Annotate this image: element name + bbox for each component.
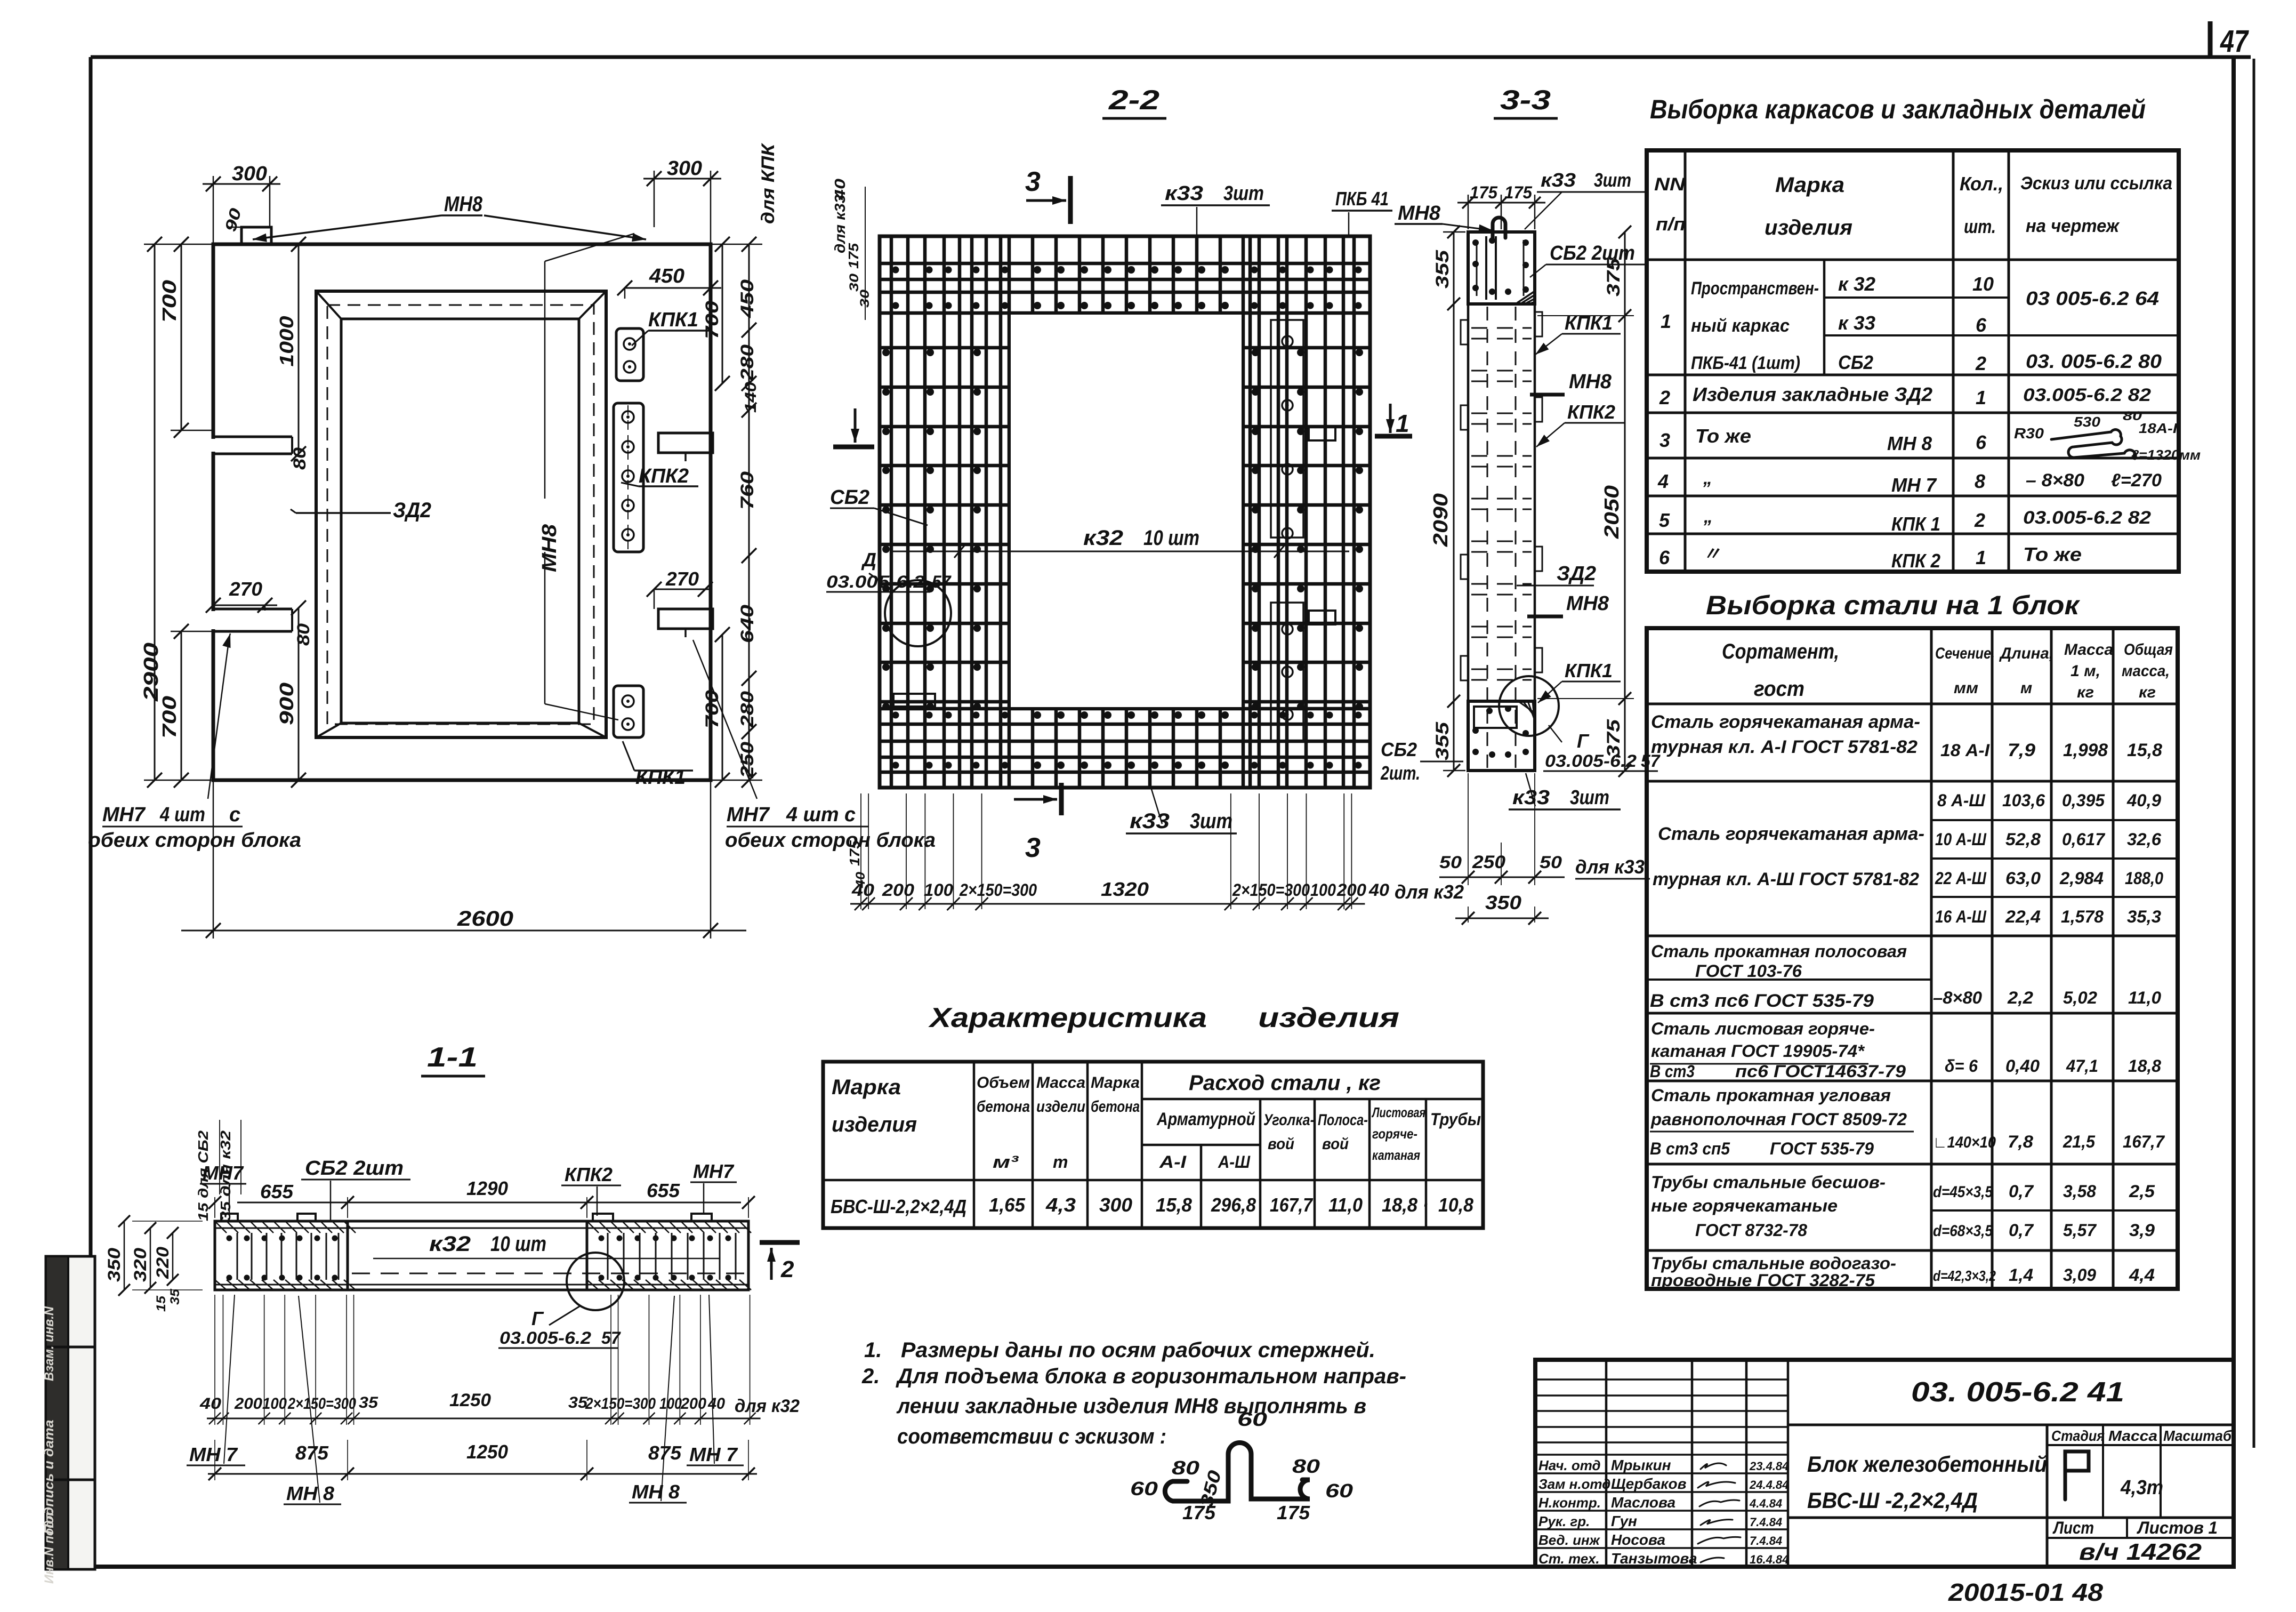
- svg-text:250: 250: [1472, 852, 1505, 872]
- svg-text:5,57: 5,57: [2063, 1221, 2097, 1240]
- svg-text:вой: вой: [1268, 1135, 1294, 1153]
- svg-text:Щербаков: Щербаков: [1611, 1475, 1687, 1492]
- svg-text:обеих сторон блока: обеих сторон блока: [725, 829, 936, 852]
- svg-text:15,8: 15,8: [1156, 1194, 1192, 1216]
- svg-text:280: 280: [737, 344, 758, 381]
- svg-text:300: 300: [232, 163, 267, 185]
- svg-text:лении закладные изделия МН8: лении закладные изделия МН8 выполнять в: [896, 1394, 1366, 1418]
- svg-text:03 005-6.2 64: 03 005-6.2 64: [2026, 287, 2159, 309]
- svg-text:Трубы стальные водогазо-: Трубы стальные водогазо-: [1651, 1254, 1896, 1273]
- svg-text:20015-01 48: 20015-01 48: [1948, 1578, 2104, 1606]
- svg-text:175: 175: [847, 840, 863, 866]
- svg-text:175: 175: [1470, 183, 1498, 202]
- svg-text:МН 8: МН 8: [286, 1482, 334, 1504]
- svg-text:Трубы стальные бесшов-: Трубы стальные бесшов-: [1651, 1173, 1886, 1192]
- svg-text:760: 760: [737, 471, 758, 510]
- svg-text:В ст3 пс6 ГОСТ 535-79: В ст3 пс6 ГОСТ 535-79: [1650, 991, 1874, 1011]
- svg-text:ГОСТ 535-79: ГОСТ 535-79: [1770, 1139, 1874, 1158]
- svg-text:СБ2 2шт: СБ2 2шт: [305, 1157, 404, 1180]
- svg-text:03.005-6.2: 03.005-6.2: [1545, 751, 1637, 771]
- svg-text:1250: 1250: [449, 1390, 491, 1410]
- svg-text:350: 350: [1485, 892, 1521, 913]
- svg-text:КПК2: КПК2: [639, 465, 689, 487]
- svg-text:4 шт: 4 шт: [159, 804, 205, 826]
- svg-text:200: 200: [1336, 880, 1366, 900]
- svg-text:Длина,: Длина,: [1999, 645, 2053, 662]
- svg-text:03. 005-6.2 41: 03. 005-6.2 41: [1911, 1377, 2124, 1408]
- svg-text:ℓ=270: ℓ=270: [2111, 470, 2162, 491]
- svg-text:24.4.84: 24.4.84: [1749, 1478, 1789, 1491]
- svg-text:„: „: [1703, 507, 1713, 527]
- svg-text:– 8×80: – 8×80: [2026, 470, 2084, 491]
- svg-text:655: 655: [260, 1181, 294, 1202]
- svg-text:Марка: Марка: [1091, 1074, 1140, 1092]
- svg-text:Масса: Масса: [1036, 1074, 1085, 1092]
- svg-text:КПК2: КПК2: [565, 1164, 613, 1185]
- svg-text:МН7: МН7: [693, 1160, 735, 1182]
- svg-text:3шт: 3шт: [1190, 809, 1232, 833]
- svg-text:пс6 ГОСТ14637-79: пс6 ГОСТ14637-79: [1735, 1062, 1906, 1081]
- svg-text:35,3: 35,3: [2127, 907, 2161, 926]
- svg-text:3,9: 3,9: [2129, 1221, 2155, 1240]
- svg-text:355: 355: [1432, 250, 1453, 288]
- svg-text:Характеристика: Характеристика: [928, 1003, 1207, 1033]
- svg-text:2×150=300: 2×150=300: [287, 1395, 356, 1413]
- svg-text:3шт: 3шт: [1570, 787, 1609, 809]
- svg-text:1 м,: 1 м,: [2071, 662, 2100, 680]
- svg-text:52,8: 52,8: [2005, 830, 2041, 849]
- svg-text:Изделия закладные ЗД2: Изделия закладные ЗД2: [1693, 383, 1932, 405]
- svg-text:10: 10: [1972, 273, 1994, 295]
- svg-text:Нач. отд: Нач. отд: [1538, 1457, 1601, 1473]
- svg-text:7,9: 7,9: [2008, 740, 2035, 760]
- svg-text:Танзытова: Танзытова: [1611, 1550, 1697, 1567]
- svg-text:875: 875: [295, 1442, 329, 1464]
- svg-text:Г: Г: [531, 1308, 544, 1329]
- svg-text:МН 7: МН 7: [1891, 474, 1937, 496]
- svg-text:1,578: 1,578: [2061, 907, 2104, 926]
- svg-text:d=45×3,5: d=45×3,5: [1933, 1183, 1993, 1201]
- svg-text:Сталь прокатная полосовая: Сталь прокатная полосовая: [1651, 942, 1907, 961]
- svg-text:КПК 1: КПК 1: [1891, 513, 1940, 535]
- svg-text:875: 875: [648, 1442, 682, 1464]
- svg-text:530: 530: [2074, 414, 2101, 430]
- svg-text:15,8: 15,8: [2127, 740, 2162, 760]
- svg-text:280: 280: [737, 691, 758, 728]
- svg-text:изделия: изделия: [832, 1113, 917, 1136]
- svg-text:d=68×3,5: d=68×3,5: [1933, 1222, 1993, 1240]
- svg-text:КПК2: КПК2: [1567, 401, 1615, 423]
- svg-text:КПК1: КПК1: [1565, 312, 1613, 334]
- svg-text:Носова: Носова: [1611, 1531, 1665, 1548]
- svg-text:700: 700: [702, 301, 722, 339]
- svg-text:16 А-Ш: 16 А-Ш: [1935, 907, 1987, 926]
- svg-text:Для подъема блока в горизон: Для подъема блока в горизонтальном напра…: [896, 1365, 1406, 1388]
- svg-text:0,395: 0,395: [2062, 791, 2105, 810]
- svg-text:2: 2: [1975, 352, 1986, 374]
- svg-text:0,40: 0,40: [2005, 1056, 2040, 1076]
- svg-text:8: 8: [1975, 470, 1985, 492]
- svg-text:Кол.,: Кол.,: [1960, 173, 2003, 195]
- svg-text:МН8: МН8: [538, 524, 561, 572]
- svg-text:СБ2: СБ2: [830, 486, 869, 509]
- svg-text:22,4: 22,4: [2005, 907, 2041, 926]
- svg-text:2,984: 2,984: [2059, 869, 2104, 888]
- svg-text:175: 175: [845, 243, 861, 269]
- svg-text:640: 640: [737, 605, 758, 643]
- svg-text:2: 2: [1974, 509, 1985, 531]
- svg-text:63,0: 63,0: [2005, 869, 2041, 888]
- svg-text:Сечение,: Сечение,: [1935, 645, 1995, 662]
- svg-text:2шт.: 2шт.: [1380, 762, 1420, 784]
- svg-text:м³: м³: [993, 1152, 1019, 1172]
- svg-text:200: 200: [882, 880, 914, 900]
- svg-text:ЗД2: ЗД2: [393, 499, 431, 522]
- svg-text:бетона: бетона: [1091, 1098, 1140, 1116]
- svg-text:ПКБ-41 (1шт): ПКБ-41 (1шт): [1691, 353, 1800, 373]
- svg-text:15 для СБ2: 15 для СБ2: [195, 1130, 211, 1221]
- svg-text:катаная: катаная: [1372, 1147, 1420, 1163]
- svg-text:0,7: 0,7: [2009, 1221, 2034, 1240]
- svg-text:2090: 2090: [1430, 493, 1452, 547]
- svg-text:18,8: 18,8: [2128, 1056, 2161, 1076]
- svg-text:50: 50: [1540, 853, 1562, 872]
- svg-text:КПК 2: КПК 2: [1891, 550, 1940, 572]
- svg-text:450: 450: [737, 279, 758, 318]
- svg-text:БВС-Ш-2,2×2,4Д: БВС-Ш-2,2×2,4Д: [831, 1196, 966, 1217]
- svg-text:50: 50: [1439, 853, 1462, 872]
- svg-text:2050: 2050: [1601, 485, 1623, 539]
- svg-text:Зам н.отд: Зам н.отд: [1538, 1476, 1610, 1492]
- svg-text:Лист: Лист: [2052, 1518, 2094, 1537]
- svg-text:обеих сторон блока: обеих сторон блока: [88, 829, 301, 852]
- svg-text:80: 80: [1172, 1457, 1199, 1479]
- svg-text:60: 60: [1130, 1478, 1158, 1499]
- svg-text:Объем: Объем: [977, 1074, 1030, 1092]
- svg-text:Гун: Гун: [1611, 1513, 1637, 1529]
- svg-text:1: 1: [1396, 410, 1409, 437]
- svg-text:Инв.N подл.: Инв.N подл.: [42, 1509, 57, 1584]
- svg-text:175: 175: [1504, 183, 1533, 202]
- svg-text:Н.контр.: Н.контр.: [1538, 1495, 1601, 1511]
- svg-text:ПКБ 41: ПКБ 41: [1335, 188, 1389, 210]
- svg-text:к 33: к 33: [1838, 312, 1875, 334]
- svg-text:10 шт: 10 шт: [490, 1232, 546, 1256]
- svg-text:2,2: 2,2: [2007, 988, 2033, 1007]
- svg-text:1,4: 1,4: [2009, 1265, 2033, 1285]
- svg-text:Г: Г: [1577, 730, 1590, 752]
- svg-text:103,6: 103,6: [2002, 791, 2045, 810]
- svg-text:Эскиз или ссылка: Эскиз или ссылка: [2020, 173, 2172, 194]
- svg-text:18А-I: 18А-I: [2139, 420, 2178, 436]
- svg-text:140: 140: [742, 382, 760, 413]
- svg-text:кг: кг: [2077, 684, 2094, 701]
- svg-text:5: 5: [1659, 509, 1670, 531]
- svg-text:Листовая: Листовая: [1371, 1104, 1425, 1120]
- svg-text:То же: То же: [2023, 543, 2082, 565]
- svg-text:МН 8: МН 8: [1887, 432, 1932, 454]
- svg-text:к33: к33: [1541, 169, 1576, 191]
- svg-text:270: 270: [229, 578, 262, 600]
- svg-text:МН8: МН8: [444, 193, 483, 216]
- svg-text:Полоса-: Полоса-: [1318, 1111, 1368, 1129]
- svg-text:Д: Д: [861, 549, 876, 571]
- svg-text:2,5: 2,5: [2129, 1182, 2155, 1201]
- svg-text:МН8: МН8: [1569, 371, 1612, 393]
- svg-text:Масса: Масса: [2064, 641, 2113, 659]
- svg-text:60: 60: [1325, 1480, 1353, 1502]
- svg-text:т: т: [1053, 1152, 1068, 1172]
- svg-text:Марка: Марка: [832, 1076, 901, 1099]
- svg-text:В ст3 сп5: В ст3 сп5: [1650, 1139, 1730, 1158]
- svg-text:15: 15: [154, 1295, 168, 1312]
- svg-text:для к33: для к33: [1575, 856, 1645, 878]
- svg-text:Сортамент,: Сортамент,: [1722, 640, 1839, 663]
- svg-text:〃: 〃: [1703, 544, 1721, 564]
- svg-text:03. 005-6.2 80: 03. 005-6.2 80: [2026, 350, 2162, 372]
- svg-text:турная кл. А-Ш ГОСТ 5781-82: турная кл. А-Ш ГОСТ 5781-82: [1653, 869, 1919, 889]
- svg-text:700: 700: [158, 280, 180, 323]
- svg-text:10 шт: 10 шт: [1143, 526, 1199, 550]
- svg-text:То же: То же: [1695, 425, 1751, 447]
- svg-text:м: м: [2020, 679, 2032, 697]
- svg-text:5,02: 5,02: [2063, 988, 2097, 1007]
- svg-text:35: 35: [168, 1288, 182, 1305]
- svg-text:гост: гост: [1754, 677, 1804, 701]
- svg-text:1: 1: [1976, 387, 1986, 408]
- svg-text:4,3т: 4,3т: [2120, 1477, 2163, 1499]
- svg-text:1.: 1.: [864, 1338, 882, 1362]
- svg-text:СБ2: СБ2: [1838, 351, 1873, 373]
- svg-text:40: 40: [1368, 880, 1389, 900]
- svg-text:2.: 2.: [861, 1365, 880, 1388]
- svg-text:4: 4: [1657, 470, 1669, 492]
- svg-text:40: 40: [199, 1395, 222, 1413]
- svg-text:ЗД2: ЗД2: [1557, 563, 1596, 585]
- svg-text:п/п: п/п: [1656, 214, 1686, 235]
- svg-text:бетона: бетона: [977, 1098, 1030, 1116]
- svg-text:1,65: 1,65: [989, 1194, 1026, 1216]
- svg-text:4,3: 4,3: [1045, 1194, 1076, 1216]
- svg-text:700: 700: [702, 690, 722, 728]
- svg-text:175: 175: [1277, 1502, 1310, 1523]
- svg-text:270: 270: [665, 568, 699, 590]
- svg-text:80: 80: [290, 447, 309, 470]
- svg-text:к33: к33: [1165, 182, 1203, 205]
- svg-text:ГОСТ 103-76: ГОСТ 103-76: [1695, 961, 1802, 981]
- svg-text:47,1: 47,1: [2066, 1056, 2098, 1076]
- svg-text:изделия: изделия: [1765, 216, 1852, 239]
- svg-text:Расход стали , кг: Расход стали , кг: [1189, 1071, 1381, 1095]
- svg-text:200: 200: [234, 1395, 262, 1413]
- svg-text:Сталь горячекатаная арма-: Сталь горячекатаная арма-: [1651, 712, 1920, 732]
- svg-text:∟140×10: ∟140×10: [1933, 1134, 1996, 1151]
- svg-text:1: 1: [1661, 310, 1671, 332]
- svg-text:1000: 1000: [276, 316, 297, 367]
- svg-text:175: 175: [1182, 1502, 1216, 1523]
- svg-text:700: 700: [158, 696, 180, 739]
- svg-text:равнополочная ГОСТ 8509-72: равнополочная ГОСТ 8509-72: [1650, 1110, 1907, 1129]
- svg-text:900: 900: [276, 683, 297, 725]
- svg-text:ℓ=1320мм: ℓ=1320мм: [2131, 447, 2201, 463]
- svg-text:250: 250: [737, 742, 758, 779]
- svg-text:7.4.84: 7.4.84: [1750, 1534, 1782, 1547]
- svg-text:Выборка каркасов и закладны: Выборка каркасов и закладных деталей: [1650, 94, 2146, 124]
- svg-text:Пространствен-: Пространствен-: [1691, 278, 1819, 299]
- svg-text:2-2: 2-2: [1108, 85, 1159, 116]
- svg-text:1-1: 1-1: [427, 1042, 478, 1073]
- svg-text:3шт: 3шт: [1223, 182, 1264, 205]
- svg-text:100: 100: [924, 880, 953, 900]
- svg-text:6: 6: [1659, 547, 1670, 568]
- svg-text:3,09: 3,09: [2063, 1265, 2096, 1285]
- svg-text:Ст. тех.: Ст. тех.: [1538, 1551, 1600, 1567]
- svg-text:0,617: 0,617: [2062, 830, 2106, 849]
- svg-text:Вед. инж: Вед. инж: [1538, 1532, 1601, 1548]
- svg-text:03.005-6.2: 03.005-6.2: [826, 572, 925, 591]
- svg-text:350: 350: [104, 1248, 124, 1282]
- svg-text:соответствии с эскизом :: соответствии с эскизом :: [897, 1425, 1166, 1448]
- svg-text:655: 655: [647, 1180, 680, 1201]
- svg-text:Марка: Марка: [1775, 173, 1844, 197]
- svg-text:40: 40: [853, 871, 868, 888]
- svg-text:для к32: для к32: [1395, 881, 1464, 903]
- svg-text:3: 3: [1025, 166, 1041, 197]
- svg-text:2×150=300: 2×150=300: [959, 880, 1037, 900]
- svg-text:18,8 ·: 18,8 ·: [1382, 1194, 1429, 1216]
- svg-text:КПК1: КПК1: [1565, 660, 1613, 681]
- svg-text:КПК1: КПК1: [648, 309, 698, 331]
- svg-text:320: 320: [131, 1248, 150, 1282]
- svg-text:100: 100: [1310, 880, 1336, 900]
- svg-text:11,0: 11,0: [2128, 988, 2161, 1007]
- svg-text:к32: к32: [1083, 526, 1123, 550]
- svg-text:300: 300: [667, 157, 702, 180]
- svg-text:Блок железобетонный: Блок железобетонный: [1807, 1451, 2047, 1477]
- svg-text:220: 220: [153, 1247, 172, 1279]
- svg-text:40: 40: [707, 1395, 725, 1413]
- svg-text:СБ2: СБ2: [1381, 739, 1417, 760]
- svg-text:на чертеж: на чертеж: [2026, 216, 2120, 236]
- svg-text:100: 100: [262, 1395, 287, 1413]
- svg-text:А-Ш: А-Ш: [1218, 1152, 1251, 1172]
- svg-text:6: 6: [1976, 314, 1987, 336]
- svg-text:–8×80: –8×80: [1933, 988, 1982, 1007]
- svg-text:03.005-6.2 82: 03.005-6.2 82: [2023, 385, 2151, 405]
- svg-text:МН8: МН8: [1566, 592, 1609, 615]
- svg-text:МН7: МН7: [102, 804, 146, 826]
- svg-text:2: 2: [780, 1256, 794, 1282]
- svg-text:ные горячекатаные: ные горячекатаные: [1651, 1196, 1838, 1215]
- svg-text:18 А-I: 18 А-I: [1940, 741, 1990, 760]
- svg-text:23.4.84: 23.4.84: [1749, 1459, 1789, 1473]
- svg-text:Взам. инв.N: Взам. инв.N: [42, 1306, 57, 1381]
- svg-text:11,0: 11,0: [1328, 1194, 1363, 1216]
- svg-text:1290: 1290: [466, 1177, 508, 1199]
- svg-text:с: с: [229, 804, 240, 826]
- svg-text:„: „: [1703, 468, 1712, 488]
- svg-text:7.4.84: 7.4.84: [1750, 1515, 1782, 1529]
- svg-text:21,5: 21,5: [2063, 1132, 2096, 1151]
- svg-text:8 А-Ш: 8 А-Ш: [1937, 791, 1986, 810]
- svg-text:δ= 6: δ= 6: [1945, 1056, 1978, 1076]
- svg-text:80: 80: [294, 623, 313, 646]
- svg-text:80: 80: [1292, 1455, 1320, 1477]
- svg-text:188,0: 188,0: [2125, 869, 2163, 888]
- svg-text:Общая: Общая: [2124, 641, 2173, 659]
- svg-text:6: 6: [1976, 431, 1987, 453]
- svg-text:3: 3: [1659, 429, 1670, 451]
- svg-text:100: 100: [659, 1395, 682, 1413]
- svg-text:47: 47: [2220, 24, 2249, 59]
- svg-text:30: 30: [847, 273, 861, 292]
- svg-text:Листов 1: Листов 1: [2137, 1518, 2218, 1537]
- svg-text:Размеры даны по осям рабоч: Размеры даны по осям рабочих стержней.: [901, 1338, 1375, 1362]
- svg-text:катаная ГОСТ 19905-74*: катаная ГОСТ 19905-74*: [1651, 1041, 1865, 1061]
- svg-text:7,8: 7,8: [2008, 1132, 2033, 1151]
- svg-text:мм: мм: [1954, 679, 1978, 697]
- svg-text:вой: вой: [1322, 1135, 1349, 1153]
- svg-text:3шт: 3шт: [1594, 169, 1631, 191]
- svg-text:450: 450: [649, 265, 684, 287]
- svg-text:Мрыкин: Мрыкин: [1611, 1457, 1671, 1473]
- svg-text:Маслова: Маслова: [1611, 1494, 1675, 1511]
- svg-text:4 шт с: 4 шт с: [786, 804, 856, 826]
- svg-text:16.4.84: 16.4.84: [1750, 1553, 1789, 1566]
- svg-text:кг: кг: [2139, 684, 2156, 701]
- svg-text:ГОСТ 8732-78: ГОСТ 8732-78: [1695, 1221, 1807, 1240]
- svg-text:3: 3: [1025, 832, 1041, 863]
- svg-text:Рук. гр.: Рук. гр.: [1538, 1513, 1590, 1529]
- svg-text:1320: 1320: [1101, 878, 1149, 900]
- svg-text:В ст3: В ст3: [1650, 1062, 1695, 1081]
- svg-text:03.005-6.2: 03.005-6.2: [500, 1328, 591, 1348]
- svg-text:3,58: 3,58: [2063, 1182, 2096, 1201]
- svg-text:МН 7: МН 7: [189, 1443, 238, 1465]
- svg-text:Масштаб: Масштаб: [2163, 1427, 2232, 1444]
- svg-text:03.005-6.2 82: 03.005-6.2 82: [2023, 508, 2151, 528]
- svg-text:изделия: изделия: [1258, 1003, 1399, 1033]
- svg-text:40,9: 40,9: [2126, 791, 2161, 810]
- svg-text:10,8: 10,8: [1438, 1194, 1473, 1216]
- svg-text:МН7: МН7: [727, 804, 770, 826]
- svg-text:МН 8: МН 8: [632, 1481, 680, 1503]
- svg-text:1250: 1250: [466, 1441, 508, 1463]
- svg-text:0,7: 0,7: [2009, 1182, 2034, 1201]
- svg-text:СБ2 2шт: СБ2 2шт: [1550, 242, 1635, 264]
- svg-text:к32: к32: [429, 1232, 471, 1256]
- svg-text:к33: к33: [1130, 809, 1170, 833]
- svg-text:Трубы: Трубы: [1430, 1110, 1481, 1129]
- svg-text:Уголка-: Уголка-: [1263, 1111, 1315, 1129]
- svg-text:NN: NN: [1654, 174, 1686, 195]
- svg-text:Масса: Масса: [2108, 1427, 2157, 1444]
- svg-text:горяче-: горяче-: [1372, 1126, 1417, 1142]
- svg-text:167,7: 167,7: [2123, 1132, 2165, 1151]
- svg-text:60: 60: [1237, 1408, 1267, 1430]
- svg-text:d=42,3×3,2: d=42,3×3,2: [1933, 1268, 1996, 1284]
- svg-text:турная кл. А-I ГОСТ 5781-8: турная кл. А-I ГОСТ 5781-82: [1651, 737, 1918, 757]
- svg-text:для КПК: для КПК: [758, 143, 778, 224]
- svg-text:проводные ГОСТ 3282-75: проводные ГОСТ 3282-75: [1651, 1271, 1875, 1290]
- svg-text:ный каркас: ный каркас: [1691, 316, 1790, 336]
- svg-text:2600: 2600: [457, 907, 513, 931]
- svg-text:57: 57: [932, 572, 952, 591]
- svg-text:2900: 2900: [140, 643, 163, 702]
- svg-text:2: 2: [1659, 387, 1670, 408]
- svg-text:300: 300: [1099, 1194, 1132, 1216]
- svg-text:к 32: к 32: [1838, 273, 1875, 295]
